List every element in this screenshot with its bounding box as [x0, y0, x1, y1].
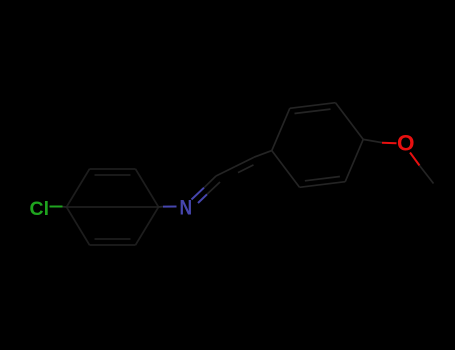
svg-text:O: O	[397, 130, 415, 155]
wire ring2 edge BR-BL (double)	[300, 182, 346, 188]
wire ring1 edge TL-TR (double)	[90, 168, 136, 170]
wire ring1 edge R-BR	[136, 207, 159, 245]
wire ring1 edge BR-BL (double)	[90, 244, 136, 246]
wire ring2 edge BL-L	[272, 151, 300, 188]
svg-text:Cl: Cl	[30, 198, 50, 220]
bond ring1-N (C-N single)	[159, 206, 164, 208]
benzene ring 2 (4-methoxyphenyl)	[272, 103, 363, 188]
wire ring2 edge R-BR	[345, 139, 363, 181]
chain C3-ring2 single bond	[254, 151, 272, 158]
imine C=N double bond	[192, 188, 205, 200]
wire ring2 edge TL-TR (double)	[290, 103, 336, 109]
wire ring1 edge BL-L	[67, 207, 90, 245]
bond ring2-O (C-O single)	[363, 139, 382, 142]
wire ring2 edge TR-R	[336, 103, 364, 140]
bond O-CH3 (methyl)	[410, 153, 420, 166]
wire ring2 edge L-TL	[272, 108, 290, 150]
benzene ring 1 (4-chlorophenyl)	[67, 169, 159, 245]
svg-text:N: N	[180, 197, 193, 220]
wire faint para-axis line through ring1	[67, 206, 159, 208]
wire ring1 edge TR-R	[136, 169, 159, 207]
chlorine Cl bond stub	[62, 206, 67, 208]
wire ring1 edge L-TL	[67, 169, 90, 207]
chain C2=C3 double bond	[235, 157, 254, 166]
chain C1-C2 single bond	[216, 167, 235, 176]
